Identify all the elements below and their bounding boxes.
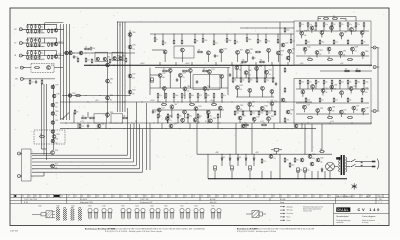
- resistor R137: [181, 39, 183, 44]
- transistor package outline: [94, 208, 98, 219]
- wire: [273, 123, 275, 129]
- svg-text:1n5: 1n5: [110, 83, 112, 85]
- svg-text:3,3k: 3,3k: [132, 78, 135, 80]
- wire: [202, 34, 204, 38]
- wire: [262, 90, 264, 97]
- svg-text:47k: 47k: [169, 120, 171, 122]
- svg-text:BC 546: BC 546: [210, 199, 215, 201]
- svg-text:81: 81: [217, 196, 219, 198]
- svg-text:+41V: +41V: [240, 63, 243, 65]
- resistor R224: [327, 117, 333, 119]
- wire: [207, 154, 209, 179]
- wire bus rail D: [60, 128, 316, 130]
- wire: [164, 54, 166, 62]
- transistor T148: [183, 87, 187, 91]
- resistor R157: [213, 93, 215, 99]
- transistor T106: [69, 51, 72, 54]
- resistor R192: [331, 22, 333, 27]
- svg-text:0,1µ: 0,1µ: [263, 161, 266, 163]
- resistor R138: [194, 38, 196, 43]
- transistor T180: [350, 28, 354, 32]
- wire: [347, 27, 349, 32]
- transistor T133: [181, 48, 185, 52]
- wire: [299, 84, 301, 89]
- wire: [340, 114, 342, 117]
- svg-text:470µ: 470µ: [300, 170, 303, 172]
- svg-text:T266: T266: [110, 78, 113, 80]
- wire: [311, 124, 313, 152]
- capacitor C103: [34, 25, 36, 29]
- svg-text:84: 84: [35, 196, 37, 198]
- wire selector ladder: [53, 84, 55, 150]
- wire: [249, 92, 251, 97]
- resistor R146: [277, 38, 279, 43]
- svg-text:270k: 270k: [204, 40, 207, 42]
- connector Bu109: [18, 152, 23, 155]
- svg-text:T151: T151: [55, 120, 58, 122]
- transistor T109: [103, 57, 106, 60]
- svg-text:T163: T163: [334, 84, 337, 86]
- svg-text:120: 120: [252, 106, 254, 108]
- resistor R128: [75, 95, 81, 97]
- svg-text:T256: T256: [307, 105, 310, 107]
- wire: [232, 65, 234, 78]
- transistor T154: [206, 110, 210, 114]
- transistor T126: [51, 139, 54, 142]
- fuse SI101: [336, 157, 340, 159]
- svg-text:1n5: 1n5: [85, 47, 87, 49]
- wire: [159, 77, 161, 88]
- svg-text:T283: T283: [264, 106, 267, 108]
- wire: [229, 161, 231, 166]
- transistor T203: [281, 98, 285, 102]
- resistor R211: [315, 79, 317, 84]
- svg-text:22k: 22k: [349, 82, 351, 84]
- capacitor C110: [30, 55, 32, 59]
- svg-text:55: 55: [169, 196, 171, 198]
- wire: [236, 110, 274, 112]
- wire: [184, 91, 186, 99]
- resistor R188: [299, 22, 301, 27]
- svg-text:100µ: 100µ: [175, 95, 178, 97]
- wire: [347, 84, 349, 89]
- wire: [323, 27, 325, 32]
- resistor R204: [347, 59, 353, 61]
- wire: [279, 149, 282, 151]
- svg-text:T124: T124: [135, 206, 139, 208]
- resistor R129: [81, 117, 87, 119]
- wire: [322, 92, 324, 95]
- svg-text:Bl. 1: Bl. 1: [379, 196, 382, 198]
- package leg outline: [78, 208, 82, 221]
- svg-text:270k: 270k: [307, 100, 310, 102]
- svg-text:+42V: +42V: [255, 152, 259, 154]
- wire: [363, 84, 365, 89]
- transformer TR101: [339, 155, 347, 175]
- connector Bu108: [373, 110, 378, 113]
- svg-text:T243: T243: [239, 85, 242, 87]
- resistor R176: [264, 77, 266, 83]
- resistor R131: [122, 117, 128, 119]
- resistor R105: [48, 29, 50, 34]
- wire: [331, 27, 333, 32]
- transistor T206: [308, 155, 312, 159]
- svg-text:15k: 15k: [41, 53, 43, 55]
- wire: [271, 106, 273, 112]
- svg-text:330: 330: [320, 149, 322, 151]
- transistor T204: [286, 110, 290, 114]
- transistor T136: [236, 50, 240, 54]
- svg-text:Gleichspg.: Gleichspg.: [287, 210, 294, 212]
- wire selector feed: [43, 84, 45, 155]
- wire: [77, 123, 79, 129]
- svg-text:+0,7V: +0,7V: [330, 121, 334, 123]
- wire: [350, 32, 352, 35]
- svg-text:Circuit diagram: Circuit diagram: [362, 215, 376, 218]
- wire selector feed: [41, 84, 43, 149]
- transistor T131: [294, 124, 298, 128]
- svg-text:81: 81: [209, 196, 211, 198]
- resistor R126: [125, 57, 127, 62]
- transistor T127: [68, 94, 71, 97]
- wire row lower rail: [28, 32, 45, 34]
- wire: [229, 154, 231, 156]
- svg-text:15k: 15k: [163, 69, 165, 71]
- wire: [207, 118, 209, 123]
- wire: [166, 120, 168, 123]
- wire: [207, 114, 209, 118]
- svg-text:1n5: 1n5: [41, 31, 43, 33]
- transistor T200: [361, 108, 365, 112]
- wire: [231, 62, 233, 65]
- wire: [31, 153, 51, 155]
- svg-text:1,2k: 1,2k: [357, 24, 360, 26]
- resistor R183: [258, 110, 260, 115]
- wire loom riser: [136, 102, 138, 165]
- connector Bu107: [373, 66, 378, 69]
- title block: [333, 204, 335, 226]
- connector Bu105: [20, 77, 25, 80]
- wire: [167, 118, 169, 123]
- wire: [245, 123, 247, 129]
- wire: [302, 94, 304, 97]
- resistor R184: [266, 110, 268, 115]
- wire psu rail: [197, 153, 332, 155]
- wire row lower rail: [28, 46, 45, 48]
- wire: [277, 55, 279, 62]
- resistor R154: [189, 93, 191, 99]
- wire: [355, 17, 357, 22]
- capacitor C106: [30, 43, 32, 47]
- resistor R169: [161, 104, 167, 106]
- transistor T197: [328, 107, 332, 111]
- transistor T111: [119, 57, 122, 60]
- transistor T115: [128, 90, 132, 94]
- resistor R180: [234, 110, 236, 115]
- wire: [321, 34, 323, 37]
- svg-text:4,7µ: 4,7µ: [335, 42, 338, 44]
- svg-text:10k: 10k: [154, 112, 156, 114]
- transistor T121: [53, 94, 56, 97]
- output stage box channel R: [294, 79, 371, 125]
- svg-text:6,8k: 6,8k: [239, 89, 242, 91]
- wire: [239, 120, 241, 123]
- wire: [179, 77, 181, 88]
- wire loom: [32, 154, 128, 156]
- resistor R118: [51, 55, 53, 60]
- wire: [237, 54, 239, 62]
- svg-text:3,3k: 3,3k: [312, 158, 315, 160]
- svg-text:T147: T147: [72, 93, 75, 95]
- resistor R213: [331, 79, 333, 84]
- wire: [276, 151, 278, 154]
- svg-text:T115: T115: [211, 206, 214, 208]
- transistor package outline: [217, 208, 221, 219]
- wire: [150, 74, 160, 76]
- resistor R102: [31, 24, 33, 29]
- resistor R232: [289, 162, 291, 168]
- trim pot package: [246, 211, 266, 218]
- wire: [311, 171, 313, 179]
- svg-text:100µ: 100µ: [321, 42, 324, 44]
- wire: [196, 123, 198, 154]
- svg-text:T218: T218: [320, 108, 323, 110]
- svg-text:D101: D101: [222, 157, 225, 159]
- wire: [54, 67, 63, 69]
- svg-text:6,8k: 6,8k: [123, 116, 126, 118]
- wire loom: [32, 168, 140, 170]
- resistor R235: [39, 136, 45, 138]
- transistor T108: [96, 57, 99, 60]
- wire: [307, 27, 309, 32]
- resistor R193: [339, 22, 341, 27]
- svg-text:0,1µ: 0,1µ: [81, 126, 84, 128]
- resistor R112: [51, 42, 53, 47]
- wire: [347, 166, 351, 168]
- svg-text:47µ: 47µ: [325, 82, 327, 84]
- wire: [303, 109, 305, 112]
- transistor T112: [128, 33, 132, 37]
- wire: [268, 52, 270, 62]
- resistor R122: [77, 57, 79, 62]
- svg-text:TU: TU: [14, 43, 16, 45]
- transistor T179: [340, 32, 344, 36]
- wire: [175, 62, 177, 65]
- wire: [66, 24, 68, 120]
- package leg outline: [71, 208, 75, 221]
- wire loom riser: [139, 124, 141, 169]
- connector Bu102: [19, 42, 24, 45]
- svg-text:Masse: Masse: [287, 216, 291, 218]
- transistor T119: [106, 113, 110, 117]
- svg-text:12: 12: [113, 196, 115, 198]
- transistor package outline: [186, 208, 190, 219]
- resistor R134: [154, 37, 156, 42]
- resistor R222: [361, 97, 363, 102]
- resistor R208: [355, 70, 361, 72]
- wire: [253, 161, 255, 166]
- svg-text:T227: T227: [356, 105, 359, 107]
- transistor package outline: [170, 208, 174, 219]
- resistor R214: [339, 79, 341, 84]
- transistor T173: [252, 117, 256, 121]
- wire loom: [32, 161, 134, 163]
- transistor T175: [300, 31, 304, 35]
- wire: [312, 89, 314, 92]
- wire: [226, 34, 228, 38]
- wire: [299, 27, 301, 32]
- resistor R148: [197, 51, 203, 53]
- connector Bu101: [19, 28, 24, 31]
- resistor R143: [246, 37, 248, 42]
- resistor R190: [315, 22, 317, 27]
- wire: [44, 24, 46, 29]
- wire: [236, 89, 238, 97]
- svg-text:0,1µ: 0,1µ: [325, 24, 328, 26]
- switch box S1: [94, 114, 107, 123]
- svg-text:0,22: 0,22: [55, 107, 58, 109]
- wire: [331, 30, 333, 33]
- wire: [60, 24, 62, 120]
- svg-text:15k: 15k: [234, 80, 236, 82]
- electrolytic capacitor C125: [214, 166, 217, 170]
- svg-text:15k: 15k: [40, 134, 42, 136]
- wire: [149, 68, 151, 96]
- wire: [158, 112, 160, 118]
- resistor R141: [226, 38, 228, 43]
- wire row upper rail: [28, 50, 57, 52]
- svg-text:T139: T139: [365, 108, 368, 110]
- wire: [133, 123, 135, 129]
- wire: [194, 122, 196, 123]
- svg-text:T114: T114: [51, 65, 54, 67]
- transistor package outline: [156, 208, 160, 219]
- transistor T165: [248, 88, 252, 92]
- diode D102: [229, 157, 231, 162]
- svg-text:T118: T118: [256, 117, 259, 119]
- wire: [44, 51, 46, 56]
- transistor package outline: [150, 208, 154, 219]
- wire: [249, 171, 251, 179]
- svg-text:+40,5V: +40,5V: [140, 63, 145, 65]
- resistor R227: [284, 67, 286, 73]
- wire: [208, 74, 210, 88]
- wire: [181, 52, 183, 62]
- resistor R106: [51, 29, 53, 34]
- transistor T184: [327, 47, 331, 51]
- wire: [107, 60, 109, 118]
- wire: [214, 171, 216, 179]
- svg-text:75: 75: [75, 196, 77, 198]
- transistor T140: [288, 49, 292, 53]
- table text: [15, 195, 17, 197]
- svg-text:29: 29: [273, 196, 275, 198]
- svg-text:PH: PH: [14, 29, 16, 31]
- resistor R207: [344, 70, 350, 72]
- svg-text:T219: T219: [132, 44, 135, 46]
- resistor R125: [109, 58, 111, 63]
- svg-text:6: 6: [281, 196, 282, 198]
- connector Bu103: [19, 54, 24, 57]
- wire: [248, 65, 250, 78]
- svg-text:8: 8: [233, 196, 234, 198]
- wire: [204, 90, 206, 99]
- wire: [253, 154, 255, 156]
- wire: [317, 112, 319, 115]
- wire: [355, 84, 357, 89]
- transistor T168: [236, 106, 240, 110]
- wire: [356, 166, 366, 168]
- wire: [231, 171, 233, 179]
- svg-text:1n5: 1n5: [159, 116, 161, 118]
- wire: [296, 30, 369, 32]
- resistor R196: [363, 22, 365, 27]
- wire: [315, 27, 317, 32]
- wire feed: [146, 103, 148, 170]
- wire: [246, 53, 248, 62]
- svg-text:560: 560: [280, 55, 282, 57]
- wire: [44, 38, 46, 43]
- wire top bus: [118, 21, 295, 23]
- wire: [22, 55, 63, 57]
- svg-text:T129: T129: [213, 118, 216, 120]
- wire: [323, 84, 325, 89]
- svg-text:T166: T166: [207, 86, 210, 88]
- svg-text:6,8k: 6,8k: [357, 82, 360, 84]
- wire: [265, 74, 267, 78]
- svg-text:4,7µ: 4,7µ: [308, 57, 311, 59]
- wire: [43, 172, 45, 176]
- svg-text:0,1µ: 0,1µ: [212, 102, 215, 104]
- resistor R111: [48, 42, 50, 47]
- resistor R226: [284, 27, 286, 33]
- svg-text:2,2k: 2,2k: [236, 113, 239, 115]
- resistor R124: [91, 58, 93, 63]
- transistor T202: [286, 56, 290, 60]
- transistor T144: [188, 69, 192, 73]
- svg-text:T116: T116: [180, 206, 183, 208]
- wire tone chain rail: [63, 52, 135, 54]
- svg-text:8,2k: 8,2k: [87, 60, 90, 62]
- capacitor C119: [176, 78, 178, 82]
- wire: [207, 55, 209, 62]
- pot package outline: [32, 211, 55, 218]
- wire ground bus: [208, 178, 347, 180]
- wire: [296, 113, 369, 115]
- transistor T191: [330, 85, 334, 89]
- wire: [362, 56, 364, 59]
- svg-text:T107: T107: [174, 104, 177, 106]
- svg-text:0V: 0V: [205, 121, 207, 123]
- capacitor C120: [196, 80, 198, 84]
- transistor T150: [157, 108, 161, 112]
- resistor R223: [307, 117, 313, 119]
- connector Bu106: [373, 46, 378, 49]
- transistor T201: [281, 43, 285, 47]
- wire: [256, 70, 258, 78]
- wire: [287, 62, 289, 65]
- electrolytic capacitor C121: [151, 78, 154, 82]
- svg-text:T137: T137: [269, 70, 272, 72]
- svg-text:72: 72: [361, 196, 363, 198]
- transistor package outline: [194, 208, 198, 219]
- resistor R150: [157, 93, 159, 99]
- svg-text:0,22: 0,22: [365, 92, 368, 94]
- svg-text:70: 70: [329, 196, 331, 198]
- wire: [290, 34, 292, 38]
- resistor R109: [35, 42, 37, 47]
- resistor R189: [307, 22, 309, 27]
